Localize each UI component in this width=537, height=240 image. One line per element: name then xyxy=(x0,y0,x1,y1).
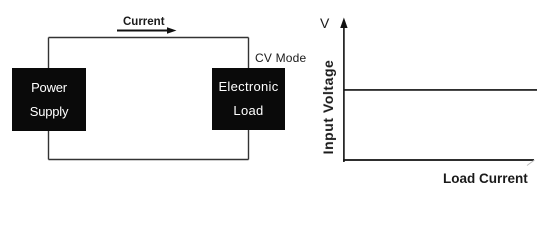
label: Input Voltage (y-axis) xyxy=(320,59,336,154)
graph y-axis with arrowhead xyxy=(340,18,347,163)
x-axis faint arrowhead remnant xyxy=(527,160,535,166)
wire bottom rail xyxy=(49,159,249,161)
block: electronic load xyxy=(212,68,285,130)
block: power supply xyxy=(12,68,86,131)
label: CV Mode xyxy=(255,51,306,65)
wire top rail xyxy=(49,37,249,39)
wire right vertical xyxy=(248,38,250,160)
wire left vertical xyxy=(48,38,50,160)
label: Load Current (x-axis) xyxy=(443,171,528,186)
graph x-axis xyxy=(343,159,534,161)
current direction arrow xyxy=(117,27,177,34)
constant voltage line xyxy=(344,89,537,91)
label: Current xyxy=(123,16,165,28)
label: V (axis) xyxy=(320,15,329,31)
